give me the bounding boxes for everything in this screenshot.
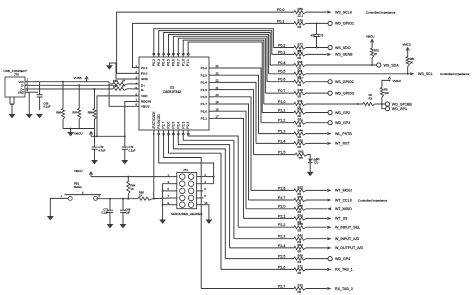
wire P0.7 stub: [306, 92, 328, 94]
svg-text:P1.7: P1.7: [278, 196, 285, 200]
connector J74 pin 3 stub: [171, 183, 177, 185]
terminal RX_TAB_3: [327, 287, 331, 290]
terminal W_INPUT_A/D: [327, 237, 331, 240]
svg-text:P1.5: P1.5: [278, 151, 285, 155]
svg-text:P0.0: P0.0: [277, 8, 284, 12]
svg-text:WD_GP1BB: WD_GP1BB: [392, 102, 413, 106]
svg-text:P2.0: P2.0: [278, 205, 285, 209]
terminal WS_SDO: [328, 45, 332, 49]
resistor R86: [62, 81, 64, 83]
svg-text:P1.3: P1.3: [201, 73, 208, 77]
svg-text:PB1: PB1: [74, 181, 80, 185]
power flag VMCU (R70): [371, 40, 373, 49]
svg-text:D1: D1: [315, 161, 319, 165]
svg-text:GND: GND: [18, 91, 24, 95]
wire D+ row: [38, 88, 113, 90]
wire net P0.4 row: [270, 64, 294, 66]
ground (C69): [120, 224, 127, 228]
wire P1.2 stub: [306, 122, 328, 124]
capacitor C70 0.1uF: [124, 136, 126, 147]
svg-text:P1.2: P1.2: [278, 119, 285, 123]
wire pulldown rail: [63, 128, 95, 130]
wire net P2.2 from bottom pin: [188, 130, 238, 227]
wire net P2.7 from bottom pin: [164, 130, 202, 289]
svg-text:P1.4: P1.4: [278, 139, 285, 143]
wire P0.4 to WS_SDA: [306, 64, 377, 66]
terminal WT_SS: [327, 217, 331, 220]
wire net P0.6 from top pin: [173, 36, 267, 81]
resistor R55 0R: [294, 207, 306, 210]
resistor R44 0R: [294, 132, 306, 135]
svg-text:R47: R47: [298, 77, 304, 81]
wire P0.3 stub: [306, 53, 327, 55]
svg-text:0R: 0R: [298, 271, 302, 275]
svg-text:WL_PSTB: WL_PSTB: [335, 132, 352, 136]
svg-text:P2.3: P2.3: [278, 235, 285, 239]
svg-text:RX_TAB_3: RX_TAB_3: [335, 287, 353, 291]
connector J74 pin 6 circle: [188, 188, 194, 194]
connector J74 pin 9 circle: [180, 202, 186, 208]
ground (C72): [91, 160, 98, 164]
wire net P2.6 row: [221, 268, 294, 270]
resistor R68 0R: [294, 63, 306, 66]
resistor R85 1K: [138, 197, 152, 200]
svg-text:P1.5: P1.5: [201, 88, 208, 92]
connector J74 shrouded header box: [177, 172, 197, 208]
capacitor C71 0.1uF: [109, 199, 111, 211]
svg-text:0R: 0R: [298, 260, 302, 264]
wire net P0.7 from top pin: [178, 38, 265, 93]
svg-text:R55: R55: [298, 204, 304, 208]
svg-text:R76: R76: [298, 18, 304, 22]
svg-text:VMCU: VMCU: [366, 34, 375, 38]
wire header pin10 ground: [203, 205, 209, 220]
resistor R88: [94, 88, 96, 90]
wire R3 to junction: [375, 103, 382, 105]
svg-text:J74: J74: [183, 168, 188, 172]
terminal WT_RST: [327, 142, 331, 145]
svg-text:VMCU: VMCU: [74, 169, 83, 173]
wire net P0.5 from top pin: [169, 34, 269, 73]
svg-text:1K: 1K: [139, 194, 142, 198]
wire net P0.5 row: [269, 73, 294, 75]
wire C2D branch to header pin 2: [203, 176, 213, 178]
wire R9 to VMCU: [382, 80, 390, 87]
svg-text:47p: 47p: [311, 34, 316, 38]
svg-text:W_INPUT_SEL: W_INPUT_SEL: [335, 226, 360, 230]
wire net P0.1 loop: [133, 23, 295, 67]
svg-text:27: 27: [122, 79, 125, 83]
terminal WD_GP4: [328, 257, 332, 261]
connector J74 pin 10 circle: [188, 202, 194, 208]
wire header pins 3,5,9 ground bus: [163, 184, 171, 220]
wire net P1.5 from right pin: [215, 90, 254, 155]
connector J70 shield pins to ground: [9, 97, 11, 104]
connector J74 pin 9 stub: [171, 204, 177, 206]
svg-text:R50: R50: [298, 108, 304, 112]
svg-text:P0.2: P0.2: [278, 43, 285, 47]
wire net P0.0 loop: [117, 12, 294, 73]
resistor R9 10K pull-up: [380, 88, 383, 98]
svg-text:W_OUTPUT_A/D: W_OUTPUT_A/D: [335, 246, 364, 250]
svg-text:P1.2: P1.2: [201, 66, 208, 70]
svg-text:R44: R44: [298, 129, 304, 133]
svg-text:P2.0: P2.0: [201, 109, 208, 113]
svg-text:R51: R51: [298, 118, 304, 122]
svg-text:P2.1: P2.1: [278, 214, 285, 218]
resistor R52 0R: [294, 142, 306, 145]
svg-text:P0.3: P0.3: [278, 50, 285, 54]
svg-text:P2.2: P2.2: [186, 122, 190, 129]
connector J74 pin 1 stub: [171, 176, 177, 178]
svg-text:LED: LED: [315, 157, 320, 161]
wire net P1.4 from right pin: [215, 82, 256, 143]
svg-text:WD_GP3: WD_GP3: [335, 121, 350, 125]
svg-text:P2.7: P2.7: [278, 284, 285, 288]
connector J74 pin 2 stub: [197, 176, 204, 178]
wire button pin1 to ground: [50, 198, 68, 216]
svg-text:Controlled Impedance: Controlled Impedance: [440, 72, 470, 76]
wire net P1.7 from right pin: [215, 104, 249, 200]
resistor R58 0R: [294, 226, 306, 229]
wire P1.0 to R3: [306, 103, 363, 105]
svg-text:C75: C75: [319, 34, 324, 38]
connector J74 pin 6 stub: [197, 190, 204, 192]
wire P2.6 stub: [306, 268, 327, 270]
svg-text:R88: R88: [88, 111, 93, 115]
wire net P1.4 row: [256, 142, 294, 144]
wire P2.1 stub: [306, 217, 327, 219]
wire D- row: [38, 84, 113, 86]
svg-text:0R: 0R: [298, 290, 302, 294]
wire REGIN riser: [125, 102, 139, 137]
wire P2.3 stub: [306, 238, 327, 240]
svg-text:WS_GPIO2: WS_GPIO2: [335, 80, 354, 84]
svg-text:R53: R53: [298, 185, 304, 189]
svg-text:0.1uF: 0.1uF: [101, 211, 108, 215]
resistor R49 0R: [294, 102, 306, 105]
ground (C71): [107, 224, 114, 228]
connector J74 pin 8 circle: [188, 195, 194, 201]
svg-text:P0.6: P0.6: [172, 59, 176, 66]
wire net P1.0 from top pin: [183, 40, 264, 104]
wire net P1.7 row: [249, 199, 295, 201]
ground (C70): [121, 160, 128, 164]
svg-text:P0.7: P0.7: [278, 89, 285, 93]
svg-text:P0.5: P0.5: [278, 70, 285, 74]
wire net P2.5 row: [225, 258, 294, 260]
wire net P2.1 row: [244, 217, 295, 219]
svg-text:C72: C72: [99, 145, 104, 149]
svg-text:P0.1: P0.1: [141, 66, 148, 70]
svg-text:WD_GP2: WD_GP2: [335, 111, 350, 115]
power flag VMCU (regulator rail): [90, 132, 92, 137]
connector J74 pin 8 stub: [197, 197, 204, 199]
resistor R51 0R: [294, 121, 306, 124]
wire P2.4 stub: [306, 247, 327, 249]
capacitor C75 47pF: [316, 22, 318, 24]
wire net P1.0 row: [264, 103, 294, 105]
svg-text:P0.3: P0.3: [157, 59, 161, 66]
svg-text:R70: R70: [374, 49, 379, 53]
wire net /RST from pin 9: [153, 130, 155, 199]
svg-text:P0.5: P0.5: [167, 59, 171, 66]
wire net P1.3 from right pin: [215, 75, 259, 133]
svg-text:SHROUDED_HEADER: SHROUDED_HEADER: [171, 212, 203, 216]
resistor R89 series D+: [110, 83, 113, 85]
svg-text:0R: 0R: [298, 145, 302, 149]
svg-text:R56: R56: [298, 213, 304, 217]
wire net P1.1 row: [262, 112, 294, 114]
svg-text:R72: R72: [298, 264, 304, 268]
svg-text:VMCU: VMCU: [403, 43, 412, 47]
svg-text:P1.1: P1.1: [278, 108, 285, 112]
terminal RX_TAB_1: [327, 268, 331, 271]
svg-text:P1.7: P1.7: [201, 102, 208, 106]
terminal WT_CCLK: [327, 198, 331, 201]
svg-text:Controlled Impedance: Controlled Impedance: [358, 198, 388, 202]
wire P1.1 stub: [306, 112, 328, 114]
svg-text:R63: R63: [299, 150, 304, 154]
svg-text:J70: J70: [14, 73, 19, 77]
resistor R50 0R: [294, 111, 306, 114]
connector J74 pin 4 circle: [188, 181, 194, 187]
wire net P2.1 from right pin: [215, 118, 244, 218]
connector J74 pin 5 circle: [180, 188, 186, 194]
wire to WD_GP1: [382, 104, 386, 109]
wire P0.6 stub: [306, 81, 328, 83]
wire net P2.0 row: [246, 208, 294, 210]
terminal W_OUTPUT_A/D: [327, 246, 331, 249]
wire P1.7 stub: [306, 199, 327, 201]
wire net P0.0 row: [293, 11, 295, 13]
svg-text:R89: R89: [113, 79, 118, 83]
connector J74 pin 1 circle: [180, 174, 186, 180]
svg-text:R9: R9: [384, 88, 388, 92]
svg-text:R48: R48: [298, 88, 304, 92]
terminal WS_SCLK: [327, 11, 331, 14]
power flag VUSB: [86, 76, 88, 81]
svg-text:WD_GPIO3: WD_GPIO3: [335, 91, 354, 95]
connector J74 pin 7 stub: [171, 197, 177, 199]
terminal WL_PSTB: [327, 132, 331, 135]
wire net P1.1 from top pin: [188, 42, 262, 113]
svg-text:P0.4: P0.4: [162, 59, 166, 66]
svg-text:WT_SS: WT_SS: [335, 217, 348, 221]
terminal WD_GPIO1: [328, 21, 332, 25]
svg-text:C70: C70: [129, 145, 134, 149]
svg-text:1uF: 1uF: [126, 211, 131, 215]
svg-text:R59: R59: [298, 254, 304, 258]
svg-text:WT_RST: WT_RST: [335, 142, 351, 146]
wire net P0.3 from top pin: [159, 31, 272, 57]
wire net P0.3 row: [272, 53, 294, 55]
svg-text:0R: 0R: [298, 25, 302, 29]
svg-text:GND: GND: [141, 77, 149, 81]
wire net P2.7 row: [201, 288, 294, 290]
svg-text:P2.3: P2.3: [181, 122, 185, 129]
terminal WS_SDA: [377, 63, 381, 67]
svg-text:VMCU: VMCU: [393, 79, 402, 83]
svg-text:0.1uF: 0.1uF: [44, 105, 51, 109]
terminal W_INPUT_SEL: [327, 226, 331, 229]
wire net P2.0 from right pin: [215, 111, 246, 209]
wire button pin2: [96, 197, 99, 199]
svg-text:R90: R90: [113, 84, 118, 88]
resistor R81 2K pull-up: [406, 57, 409, 67]
power flag VMCU (R9): [388, 77, 391, 79]
svg-text:VMCU: VMCU: [74, 132, 83, 136]
svg-text:P2.5: P2.5: [172, 122, 176, 129]
svg-text:WT_MOSI: WT_MOSI: [335, 189, 352, 193]
svg-text:WT_CCLK: WT_CCLK: [335, 198, 353, 202]
wire net P0.4 from top pin: [164, 33, 271, 66]
connector J70 pin 4 GND: [25, 91, 38, 93]
svg-text:R68: R68: [298, 60, 303, 64]
resistor R87: [78, 84, 80, 86]
wire P1.3 stub: [306, 133, 327, 135]
wire VCC/VBUS row: [38, 81, 109, 83]
wire net P1.3 row: [259, 133, 295, 135]
svg-text:P3.0/C2D: P3.0/C2D: [157, 114, 161, 129]
ground (USB GND): [26, 114, 33, 118]
svg-text:WD_GP4: WD_GP4: [335, 257, 350, 261]
svg-text:Controlled Impedance: Controlled Impedance: [366, 10, 396, 14]
svg-text:P1.6: P1.6: [278, 186, 285, 190]
svg-text:D-: D-: [21, 84, 24, 88]
connector J74 pin 10 stub: [197, 204, 204, 206]
svg-text:0R: 0R: [298, 56, 302, 60]
terminal WD_GP1BB: [382, 103, 386, 105]
wire P2.2 stub: [306, 226, 327, 228]
svg-text:R52: R52: [298, 138, 304, 142]
wire P0.2 stub: [306, 47, 328, 49]
svg-text:P1.6: P1.6: [201, 95, 208, 99]
svg-text:P0.6: P0.6: [278, 78, 285, 82]
svg-text:WD_GPIO1: WD_GPIO1: [335, 22, 354, 26]
resistor R47 0R: [294, 80, 306, 83]
wire net P1.6 from right pin: [215, 97, 251, 191]
svg-text:C8051F342: C8051F342: [163, 90, 181, 94]
svg-text:W_INPUT_A/D: W_INPUT_A/D: [335, 237, 360, 241]
svg-text:6: 6: [204, 187, 206, 191]
resistor R56 0R: [294, 217, 306, 220]
svg-text:P2.4: P2.4: [176, 122, 180, 129]
svg-text:R77: R77: [298, 43, 304, 47]
wire P0.0 stub: [306, 11, 327, 13]
svg-text:0R: 0R: [298, 83, 302, 87]
connector J70 pin 2 D-: [25, 84, 38, 86]
wire net P2.5 from bottom pin: [173, 130, 225, 259]
connector J70 pin 1 VCC: [25, 81, 38, 83]
svg-text:P2.1: P2.1: [201, 117, 208, 121]
wire GND pin loop: [109, 63, 139, 79]
svg-text:R71: R71: [298, 49, 304, 53]
svg-text:R58: R58: [298, 222, 304, 226]
svg-text:U2: U2: [170, 85, 175, 89]
svg-text:8: 8: [204, 194, 206, 198]
svg-text:P2.5: P2.5: [278, 255, 285, 259]
svg-text:VCC: VCC: [18, 80, 24, 84]
svg-text:P0.0: P0.0: [141, 72, 148, 76]
svg-text:WT_MISO: WT_MISO: [335, 207, 352, 211]
wire P1.4 stub: [306, 142, 327, 144]
terminal WT_MISO (input): [327, 207, 331, 210]
resistor R48 0R: [294, 92, 306, 95]
resistor R75 0R: [294, 287, 306, 290]
svg-text:P2.2: P2.2: [278, 223, 285, 227]
svg-text:2K: 2K: [410, 61, 413, 65]
wire net P2.4 row: [230, 247, 294, 249]
connector J74 pin 7 circle: [180, 195, 186, 201]
svg-text:10K: 10K: [384, 91, 389, 95]
svg-text:P0.2: P0.2: [152, 59, 156, 66]
svg-text:P1.0: P1.0: [278, 100, 285, 104]
svg-text:22.1: 22.1: [298, 14, 304, 18]
wire P0.1 stub: [306, 22, 328, 24]
resistor R72 0R: [294, 268, 306, 271]
terminal WS_GPIO2: [328, 80, 332, 84]
svg-text:1: 1: [61, 195, 63, 198]
svg-text:R54: R54: [298, 195, 304, 199]
wire net P1.2 from right pin: [215, 68, 261, 123]
svg-text:P1.3: P1.3: [278, 130, 285, 134]
wire to LED: [307, 155, 310, 159]
ground (header left): [159, 220, 166, 224]
wire P2.7 stub: [306, 288, 327, 290]
wire GND net from J70 pin 4 down: [28, 92, 30, 114]
wire net P0.2 from top pin: [154, 29, 274, 57]
ground (USB shield): [9, 114, 16, 118]
svg-text:P1.1: P1.1: [186, 59, 190, 66]
svg-text:P0.7: P0.7: [176, 59, 180, 66]
wire net P1.6 row: [251, 189, 294, 191]
wire net P0.2 row: [273, 47, 294, 49]
wire VDD riser: [97, 96, 139, 136]
wire P2.5 stub: [306, 258, 328, 260]
svg-text:R75: R75: [298, 284, 304, 288]
svg-text:P2.6: P2.6: [167, 122, 171, 129]
terminal WS_SCL: [410, 72, 414, 75]
resistor R53 0R: [294, 189, 306, 192]
wire header pin1 to VMCU rail: [91, 176, 171, 178]
resistor R76 0R: [294, 22, 306, 25]
svg-text:VBUS: VBUS: [141, 105, 149, 109]
svg-text:WD_GP1: WD_GP1: [392, 107, 407, 111]
ground (C66): [36, 114, 43, 118]
svg-text:0R: 0R: [298, 229, 302, 233]
wire net P1.5 row: [254, 154, 296, 156]
svg-text:R87: R87: [72, 111, 77, 115]
svg-text:P1.0: P1.0: [181, 59, 185, 66]
wire net P2.3 row: [234, 238, 294, 240]
svg-text:R69: R69: [298, 69, 303, 73]
svg-text:P2.6: P2.6: [278, 265, 285, 269]
resistor R59 0R: [294, 257, 306, 260]
connector J74 pin 4 stub: [197, 183, 204, 185]
terminal WT_MOSI: [327, 189, 331, 192]
wire VREG rail: [94, 129, 96, 137]
resistor R3 0R: [363, 102, 375, 105]
resistor R70 2K pull-up: [371, 48, 374, 58]
resistor R62 0R: [294, 246, 306, 249]
svg-text:RX_TAB_1: RX_TAB_1: [335, 268, 353, 272]
connector J70 pin 3 D+: [25, 88, 38, 90]
resistor R60 0R: [294, 237, 306, 240]
ground (header right): [206, 220, 213, 224]
svg-text:Button: Button: [74, 185, 82, 189]
resistor R80 22.1: [294, 11, 306, 14]
